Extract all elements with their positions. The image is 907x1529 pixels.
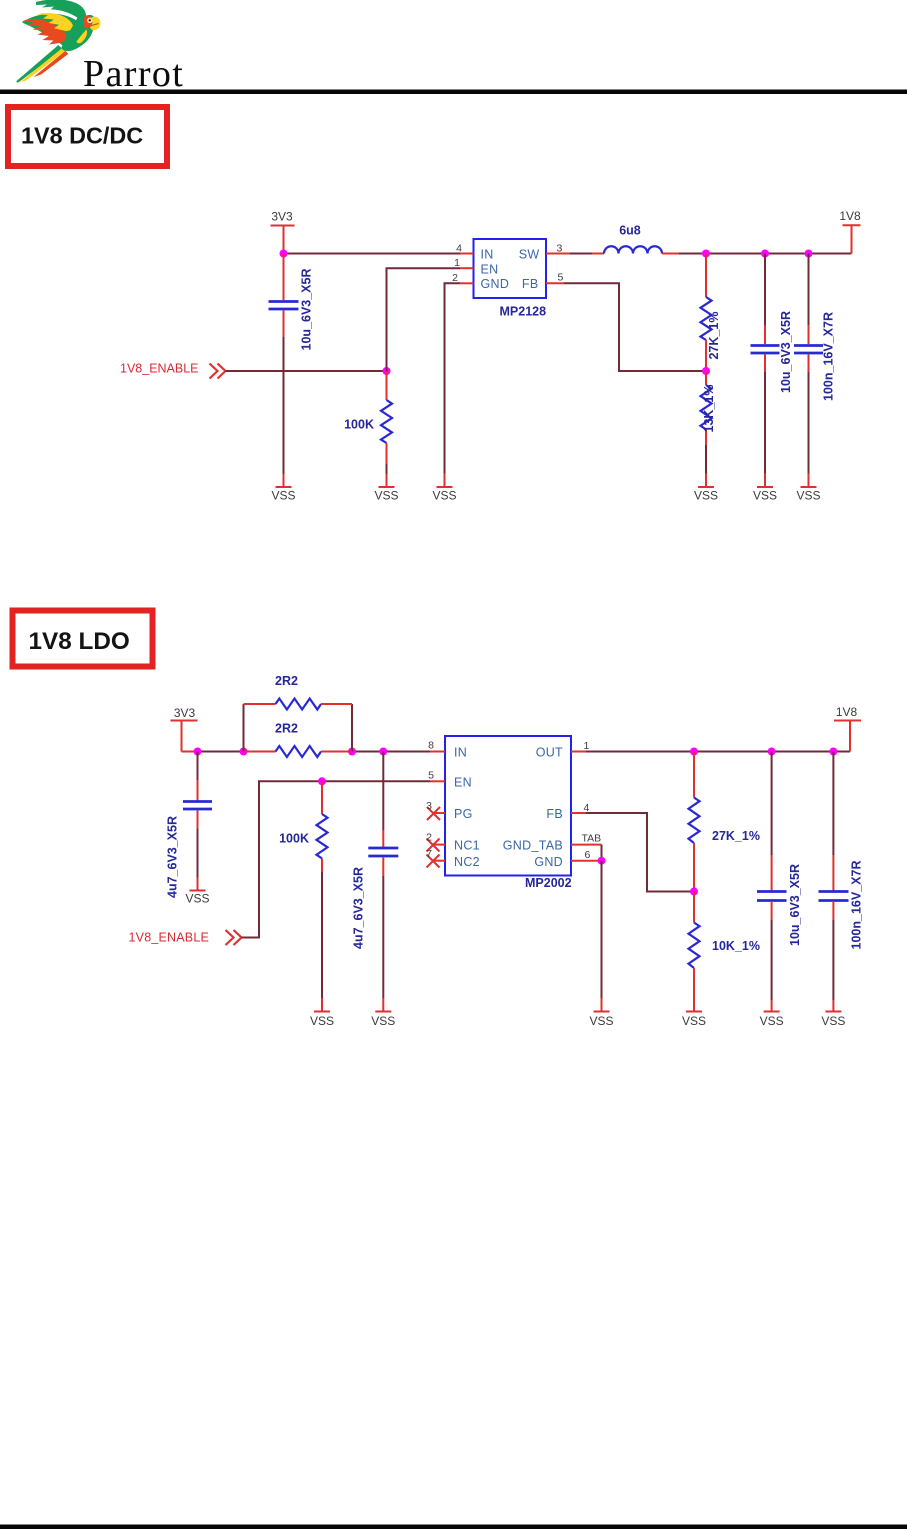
- svg-text:VSS: VSS: [760, 1014, 784, 1028]
- svg-text:FB: FB: [522, 277, 539, 291]
- svg-text:VSS: VSS: [310, 1014, 334, 1028]
- orange feather band: [22, 19, 66, 45]
- junction node rail/C4: [194, 748, 202, 756]
- pin 2 stub NC1 no-connect: [426, 832, 445, 852]
- pin 1 stub (OUT): [571, 740, 590, 752]
- svg-text:10u_6V3_X5R: 10u_6V3_X5R: [300, 268, 314, 350]
- pin 4 stub (FB): [571, 802, 590, 814]
- svg-text:10u_6V3_X5R: 10u_6V3_X5R: [788, 864, 802, 946]
- svg-text:100n_16V_X7R: 100n_16V_X7R: [850, 861, 864, 950]
- junction node rail/C5: [379, 748, 387, 756]
- wire OUT to 1V8: [586, 751, 850, 753]
- svg-text:2: 2: [452, 272, 458, 284]
- svg-text:5: 5: [428, 770, 434, 782]
- svg-text:EN: EN: [454, 776, 472, 790]
- footer bar: [0, 1525, 907, 1529]
- svg-text:27K_1%: 27K_1%: [712, 829, 760, 843]
- pin 2 stub: [452, 272, 473, 284]
- ground VSS under C3: [796, 487, 820, 503]
- junction node rail/loop right: [348, 748, 356, 756]
- svg-text:1V8: 1V8: [839, 209, 861, 223]
- pin 3 stub: [546, 243, 570, 255]
- svg-text:NC2: NC2: [454, 855, 480, 869]
- pin 5 stub (LDO EN): [428, 770, 445, 782]
- capacitor 10u_6V3_X5R C6: [757, 752, 802, 1011]
- svg-text:VSS: VSS: [374, 489, 398, 503]
- resistor 27K_1% R2: [701, 254, 722, 372]
- header rule: [0, 90, 907, 95]
- svg-text:2: 2: [426, 832, 432, 844]
- svg-text:GND: GND: [534, 855, 563, 869]
- pin 8 stub (LDO IN): [428, 740, 445, 752]
- svg-text:5: 5: [558, 272, 564, 284]
- eye: [87, 18, 92, 23]
- svg-text:100K: 100K: [279, 832, 309, 846]
- wire 1V8_ENABLE to junction: [226, 370, 387, 372]
- svg-text:VSS: VSS: [796, 489, 820, 503]
- junction node SW/C3: [805, 250, 813, 258]
- junction node OUT/C7: [829, 748, 837, 756]
- svg-text:1V8_ENABLE: 1V8_ENABLE: [120, 362, 199, 376]
- svg-text:10u_6V3_X5R: 10u_6V3_X5R: [779, 311, 793, 393]
- resistor 13K_1% R3: [701, 371, 717, 487]
- svg-text:1V8_ENABLE: 1V8_ENABLE: [129, 931, 210, 945]
- power symbol 3V3 (LDO): [171, 706, 198, 752]
- junction node OUT/27K: [690, 748, 698, 756]
- wire FB pin to divider: [564, 283, 706, 371]
- ground VSS under C1: [271, 487, 295, 503]
- svg-text:2R2: 2R2: [275, 674, 298, 688]
- head: [83, 15, 96, 28]
- pin 4 stub: [456, 243, 473, 255]
- svg-text:OUT: OUT: [536, 746, 563, 760]
- svg-text:VSS: VSS: [821, 1014, 845, 1028]
- svg-text:8: 8: [428, 740, 434, 752]
- beak: [89, 17, 100, 31]
- op-amp IC U2 MP2002: [445, 736, 572, 890]
- junction node EN/100K: [383, 367, 391, 375]
- inductor 6u8 L1: [604, 224, 662, 254]
- svg-text:VSS: VSS: [753, 489, 777, 503]
- capacitor 4u7_6V3_X5R C4: [166, 752, 213, 899]
- net label 1V8_ENABLE port: [120, 362, 226, 379]
- ground VSS under C5: [371, 1012, 395, 1029]
- ground VSS under 10K: [682, 1012, 706, 1029]
- wire enable to EN pin 5: [242, 781, 431, 937]
- svg-text:3V3: 3V3: [174, 706, 196, 720]
- wire SW to inductor: [570, 253, 604, 255]
- capacitor 100n_16V_X7R C7: [819, 752, 864, 1011]
- ground VSS under C4: [185, 891, 209, 906]
- svg-text:100K: 100K: [344, 418, 374, 432]
- svg-text:4u7_6V3_X5R: 4u7_6V3_X5R: [166, 816, 180, 898]
- pin 1 stub: [454, 257, 473, 269]
- resistor 100K R6: [279, 781, 327, 1010]
- svg-text:VSS: VSS: [682, 1014, 706, 1028]
- capacitor 4u7_6V3_X5R C5: [352, 752, 399, 1011]
- wire FB pin to divider (LDO): [586, 813, 694, 892]
- wire GND_TAB down to GND node: [601, 845, 603, 861]
- svg-text:TAB: TAB: [582, 833, 602, 845]
- svg-text:IN: IN: [481, 248, 494, 262]
- ground VSS under 100K: [374, 487, 398, 503]
- svg-text:PG: PG: [454, 807, 473, 821]
- junction node GND/TAB: [598, 857, 606, 865]
- junction node 27K/13K: [702, 367, 710, 375]
- svg-text:10K_1%: 10K_1%: [712, 939, 760, 953]
- yellow feather band: [37, 13, 74, 31]
- pin TAB stub (GND_TAB): [571, 833, 602, 845]
- svg-text:MP2128: MP2128: [500, 305, 547, 319]
- svg-text:6u8: 6u8: [619, 224, 641, 238]
- svg-text:2R2: 2R2: [275, 722, 298, 736]
- pin 7 stub NC2 no-connect: [426, 848, 445, 868]
- resistor 2R2 R4 (top, parallel loop): [244, 674, 353, 752]
- svg-text:3: 3: [426, 800, 432, 812]
- svg-text:1: 1: [584, 740, 590, 752]
- svg-text:1V8: 1V8: [836, 705, 858, 719]
- junction node 3V3/C1: [280, 250, 288, 258]
- op-amp IC U1 MP2128: [474, 239, 547, 319]
- capacitor 10u_6V3_X5R C2: [751, 254, 794, 487]
- svg-text:7: 7: [426, 848, 432, 860]
- svg-text:VSS: VSS: [694, 489, 718, 503]
- resistor 2R2 R5 (bottom, in rail): [244, 722, 353, 758]
- svg-text:VSS: VSS: [185, 892, 209, 906]
- svg-text:SW: SW: [519, 248, 540, 262]
- resistor 100K R1: [344, 371, 392, 487]
- svg-text:1V8 DC/DC: 1V8 DC/DC: [21, 123, 143, 149]
- body: [62, 13, 94, 51]
- svg-text:13K_1%: 13K_1%: [702, 385, 716, 433]
- wire GND node to VSS: [601, 861, 603, 1011]
- svg-text:100n_16V_X7R: 100n_16V_X7R: [822, 312, 836, 401]
- svg-text:1: 1: [454, 257, 460, 269]
- svg-text:4: 4: [456, 243, 462, 255]
- svg-text:VSS: VSS: [271, 489, 295, 503]
- Parrot wordmark: [83, 53, 184, 95]
- resistor 10K_1% R8: [689, 892, 760, 1011]
- svg-text:6: 6: [585, 849, 591, 861]
- parrot logo bird: [16, 0, 100, 83]
- svg-text:3: 3: [557, 243, 563, 255]
- svg-text:IN: IN: [454, 746, 467, 760]
- wire EN net up to pin 1: [387, 268, 461, 371]
- svg-text:GND: GND: [481, 277, 510, 291]
- net label 1V8_ENABLE port (LDO): [129, 930, 242, 945]
- power symbol 1V8 (LDO): [834, 705, 861, 752]
- svg-text:1V8 LDO: 1V8 LDO: [29, 628, 130, 655]
- power symbol 1V8: [839, 209, 861, 254]
- wing separation: [50, 10, 85, 25]
- pin 3 stub PG no-connect: [426, 800, 445, 820]
- svg-text:VSS: VSS: [589, 1014, 613, 1028]
- power symbol 3V3: [271, 210, 295, 254]
- svg-text:Parrot: Parrot: [83, 53, 184, 95]
- svg-text:MP2002: MP2002: [525, 876, 572, 890]
- svg-text:27K_1%: 27K_1%: [707, 312, 721, 360]
- svg-text:NC1: NC1: [454, 839, 480, 853]
- pin 5 stub: [546, 272, 564, 284]
- face patch: [83, 16, 92, 29]
- svg-text:GND_TAB: GND_TAB: [503, 839, 563, 853]
- pin 6 stub (GND): [571, 849, 598, 861]
- junction node SW/27K: [702, 250, 710, 258]
- svg-text:FB: FB: [546, 807, 563, 821]
- capacitor 100n_16V_X7R C3: [794, 254, 836, 487]
- belly crescent: [77, 30, 87, 44]
- ground VSS under GND pin (LDO): [589, 1012, 613, 1029]
- svg-text:3V3: 3V3: [271, 210, 293, 224]
- svg-text:EN: EN: [481, 262, 499, 276]
- capacitor 10u_6V3_X5R C1: [269, 254, 314, 487]
- wire GND pin 2 to VSS: [445, 283, 461, 486]
- shoulder back: [22, 14, 86, 49]
- wire inductor to 1V8: [662, 253, 852, 255]
- upper wing: [36, 0, 86, 24]
- svg-text:VSS: VSS: [371, 1014, 395, 1028]
- junction node SW/C2: [761, 250, 769, 258]
- wire 3V3 node to IN pin: [284, 253, 461, 255]
- ground VSS under C2: [753, 487, 777, 503]
- junction node OUT/C6: [768, 748, 776, 756]
- ground VSS under 13K: [694, 487, 718, 503]
- junction node EN/100K (LDO): [318, 777, 326, 785]
- svg-text:VSS: VSS: [432, 489, 456, 503]
- ground VSS under GND pin: [432, 487, 456, 503]
- svg-text:4u7_6V3_X5R: 4u7_6V3_X5R: [352, 867, 366, 949]
- title box 1V8 LDO: [13, 611, 153, 667]
- ground VSS under C6: [760, 1012, 784, 1029]
- ground VSS under C7: [821, 1012, 845, 1029]
- ground VSS under 100K (LDO): [310, 1012, 334, 1029]
- junction node 27K/10K: [690, 888, 698, 896]
- junction node rail/loop left: [240, 748, 248, 756]
- wire 3V3 rail to IN pin 8: [182, 751, 431, 753]
- tail feathers: [16, 45, 63, 83]
- resistor 27K_1% R7: [689, 752, 760, 892]
- title box 1V8 DC/DC: [8, 107, 167, 166]
